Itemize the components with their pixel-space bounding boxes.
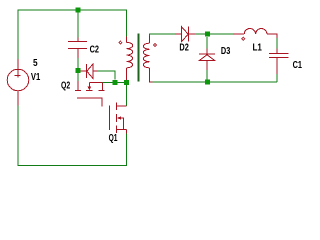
node D2 D3 junction xyxy=(205,32,210,37)
transistor Q2 body arrow head xyxy=(87,86,91,90)
node switch junction right xyxy=(124,80,129,85)
transformer secondary polarity dot xyxy=(154,43,157,46)
capacitor C2 xyxy=(68,38,87,59)
node switch junction left xyxy=(112,80,117,85)
transistor Q2 xyxy=(75,81,105,107)
capacitor C1 xyxy=(269,49,289,75)
svg-text:5: 5 xyxy=(33,58,38,69)
transistor Q1 body arrow head xyxy=(117,116,121,120)
wire switch node row xyxy=(102,82,124,84)
transformer primary polarity dot xyxy=(119,41,122,44)
wire transformer secondary top xyxy=(150,34,176,36)
svg-text:V1: V1 xyxy=(31,72,41,83)
wire switch node to Q1 drain xyxy=(126,85,128,106)
wire from clamp diode anode to switch node xyxy=(97,71,115,80)
diode D2 xyxy=(175,27,195,42)
node clamp junction xyxy=(76,68,81,73)
wire D2 cathode to L1 xyxy=(195,33,233,35)
inductor L1 polarity dot xyxy=(242,37,245,40)
svg-text:L1: L1 xyxy=(253,42,263,53)
wire L1 to C1 xyxy=(276,38,278,49)
svg-text:C2: C2 xyxy=(90,45,100,56)
transistor Q1 xyxy=(110,103,127,134)
transformer core xyxy=(138,34,140,82)
wire from C2 to clamp node xyxy=(77,58,79,68)
inductor L1 xyxy=(233,28,277,38)
diode D3 xyxy=(199,49,215,71)
transformer secondary winding xyxy=(143,36,152,82)
wire top rail from V1 to transformer primary xyxy=(18,10,127,59)
svg-text:D3: D3 xyxy=(221,46,231,57)
svg-text:Q2: Q2 xyxy=(61,81,70,92)
clamp diode of Q2 xyxy=(81,64,98,79)
transformer primary winding xyxy=(127,37,133,81)
svg-text:D2: D2 xyxy=(179,43,189,54)
svg-text:Q1: Q1 xyxy=(109,133,118,144)
wire secondary bottom rail xyxy=(152,81,277,83)
wire D3 anode to secondary return rail xyxy=(206,70,208,82)
svg-text:C1: C1 xyxy=(293,60,303,71)
voltage source V1 xyxy=(7,59,29,106)
node top rail junction xyxy=(76,8,81,13)
wire C1 to bottom rail xyxy=(276,74,278,82)
wire bottom rail from V1 to Q1 source xyxy=(18,106,127,166)
wire from top rail node down to C2 xyxy=(77,13,79,38)
wire node to D3 cathode xyxy=(206,37,208,49)
wire clamp node to Q2 drain xyxy=(77,73,79,81)
node D3 bottom junction xyxy=(205,80,210,85)
